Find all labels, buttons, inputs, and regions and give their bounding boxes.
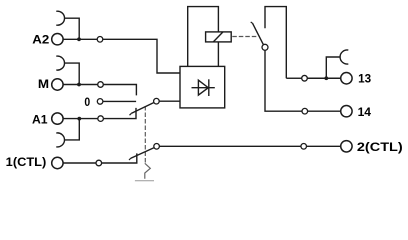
svg-text:0: 0: [84, 96, 90, 109]
svg-text:1(CTL): 1(CTL): [6, 156, 47, 169]
svg-text:2(CTL): 2(CTL): [357, 140, 403, 154]
svg-text:A1: A1: [32, 113, 48, 126]
svg-text:14: 14: [358, 105, 372, 119]
svg-text:M: M: [38, 78, 49, 91]
svg-text:A2: A2: [32, 33, 49, 46]
svg-text:13: 13: [358, 72, 371, 86]
